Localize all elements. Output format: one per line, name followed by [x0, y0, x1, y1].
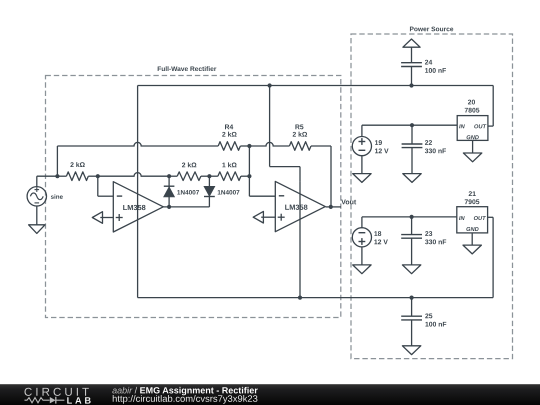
ground below sine	[29, 206, 45, 233]
capacitor C24 100 nF	[401, 60, 446, 86]
footer url	[113, 395, 258, 404]
ground below V19	[353, 156, 371, 183]
wire 7905 OUT to -V rail	[488, 216, 494, 218]
ground below 7905	[463, 233, 481, 254]
wire U2 output to Vout	[326, 206, 341, 208]
box Power Source	[351, 24, 513, 359]
wire input node up to feedback row	[56, 146, 58, 176]
ground below C23	[402, 265, 420, 274]
wire -V rail	[138, 217, 494, 297]
wire U1 supply rail vertical	[137, 86, 139, 298]
logo LAB text	[67, 397, 90, 403]
node D1 top junction	[167, 174, 171, 178]
node R4 right junction	[247, 144, 251, 148]
voltage source V19 12 V	[352, 125, 388, 156]
ground flag at U1 non-inverting input	[92, 212, 113, 224]
node input junction	[55, 174, 59, 178]
op-amp U2 LM358	[275, 181, 325, 231]
footer title	[112, 387, 257, 395]
node R3 right junction	[247, 174, 251, 178]
ground flag at U2 non-inverting input	[253, 211, 275, 223]
wire R5 down to output	[330, 146, 332, 207]
diode D2 1N4007 (pointing down)	[204, 176, 240, 207]
voltage source V18 12 V	[352, 217, 388, 247]
wire to op1 inverting input	[98, 176, 114, 196]
resistor R5 2 kΩ	[249, 125, 331, 151]
wire R3 node down to U2 inverting input	[249, 146, 275, 196]
node +V rail U2 branch junction	[268, 83, 272, 87]
node +V rail C24 junction	[409, 83, 413, 87]
ground below C25	[402, 346, 420, 355]
logo diode symbol	[50, 397, 65, 404]
node C23 top junction	[410, 215, 414, 219]
resistor 1 kΩ	[209, 162, 249, 180]
node -V rail C25 junction	[410, 296, 414, 300]
regulator U20 7805	[457, 100, 488, 141]
box Full-Wave Rectifier	[46, 64, 341, 318]
resistor R4 2 kΩ	[218, 125, 249, 151]
capacitor C23 330 nF	[401, 217, 446, 265]
node U1 output junction	[167, 205, 171, 209]
diode D1 1N4007 (pointing up)	[164, 176, 199, 207]
regulator U21 7905	[457, 191, 488, 233]
wire 7805 OUT to +V rail	[488, 125, 493, 127]
capacitor C22 330 nF	[402, 125, 446, 173]
ground below 7805	[463, 140, 481, 161]
wire 7805 input rail	[362, 124, 457, 126]
node C22 top junction	[410, 123, 414, 127]
node D2 top junction	[207, 174, 211, 178]
logo resistor squiggle	[25, 398, 50, 403]
node op1 inverting input junction	[96, 174, 100, 178]
resistor 2 kΩ (input)	[57, 162, 97, 180]
wire feedback row to R4 (hops over supply)	[57, 142, 218, 146]
resistor 2 kΩ (series)	[169, 162, 209, 180]
node -V rail U2 junction	[298, 296, 302, 300]
logo CIRCUIT text	[24, 388, 88, 396]
voltage source V1 sine	[27, 187, 63, 206]
footer bar	[0, 384, 540, 405]
wire sine to node	[37, 176, 58, 186]
node Vout label	[341, 199, 356, 204]
op-amp U1 LM358	[113, 182, 163, 232]
ground below C22	[403, 174, 421, 183]
wire main row to diode D1 (hops over supply)	[98, 173, 169, 177]
capacitor C25 100 nF	[401, 298, 446, 346]
wire U1 output	[163, 206, 210, 208]
wire +V rail	[138, 86, 494, 127]
node R5 output junction	[329, 205, 333, 209]
wire U2 supply through triangle	[299, 181, 301, 297]
wire 7905 input rail	[362, 216, 457, 218]
wire U2 positive supply jog	[270, 86, 300, 182]
ground (up) above C24	[403, 39, 420, 63]
ground below V18	[353, 247, 371, 274]
